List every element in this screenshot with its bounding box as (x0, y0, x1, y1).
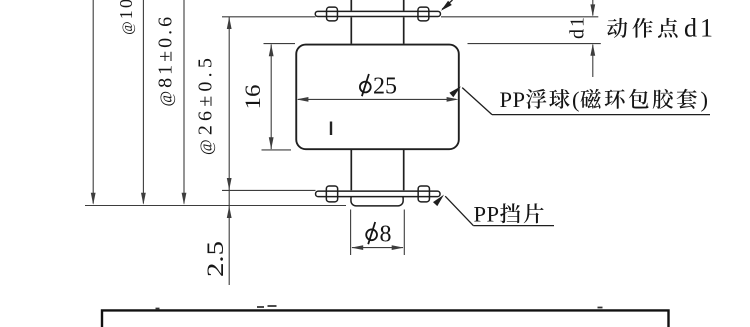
text fragments above table frame (156, 306, 603, 309)
float body PP ball (296, 45, 459, 150)
svg-text:PP: PP (500, 87, 526, 112)
svg-text:@26±0.5: @26±0.5 (195, 54, 217, 155)
bottom retaining clip left (326, 186, 337, 202)
svg-text:d1: d1 (567, 15, 589, 39)
top leader arrow to stop washer (cut at top) (441, 0, 453, 11)
stem end cap (351, 194, 403, 206)
dimension line @26±0.5 / 2.5 (227, 17, 232, 285)
top retaining clip right (418, 7, 429, 21)
stem tube right outline (403, 0, 405, 190)
bottom retaining clip right (418, 186, 429, 202)
svg-text:(: ( (572, 87, 580, 112)
dimension line @81±0.6 right (182, 0, 187, 205)
svg-text:d1: d1 (684, 14, 716, 43)
svg-text:25: 25 (373, 74, 397, 100)
dimension line @81±0.6 left (141, 0, 146, 205)
svg-text:): ) (701, 87, 709, 112)
mark inside float body (330, 122, 332, 136)
top stop washer bar (315, 11, 440, 16)
svg-text:@10: @10 (116, 0, 136, 35)
dimension label φ8 (366, 222, 391, 248)
dimension label d1 rotated (567, 15, 589, 39)
dimension line for @10 (leftmost) (91, 0, 96, 205)
dimension label @26±0.5 (195, 54, 217, 155)
extension line top left (bar bottom edge) (222, 16, 316, 18)
extension line 16 bottom (262, 149, 292, 151)
dimension label φ25 (360, 74, 397, 100)
svg-text:2.5: 2.5 (203, 241, 228, 277)
label 动作点d1 (607, 14, 716, 43)
dimension label 16 (240, 85, 265, 110)
svg-text:8: 8 (380, 222, 392, 248)
table frame (cut at bottom) (102, 310, 669, 327)
extension line φ8 right (403, 210, 405, 256)
dimension line d1 lower (590, 44, 595, 77)
svg-text:16: 16 (240, 85, 265, 110)
extension line right (body top edge) (468, 43, 601, 45)
stem tube left outline (350, 0, 352, 190)
extension line at bottom bar top edge (222, 189, 316, 191)
dimension label @81±0.6 (155, 14, 177, 107)
baseline datum line (85, 205, 346, 207)
dimension line φ25 (296, 97, 458, 102)
dimension label @10 (cut at top) (116, 0, 136, 35)
bottom stop washer bar (316, 191, 441, 197)
dimension line d1 upper (590, 0, 595, 16)
dimension line 16 (269, 44, 274, 149)
svg-text:@81±0.6: @81±0.6 (155, 14, 177, 107)
svg-text:PP: PP (474, 202, 500, 227)
extension line φ8 left (350, 210, 352, 256)
label PP挡片 (474, 202, 544, 227)
top retaining clip left (327, 7, 338, 21)
leader line PP浮球 (449, 86, 710, 114)
dimension line φ8 (351, 245, 404, 250)
leader line PP挡片 (433, 195, 554, 226)
extension line 16 top (264, 43, 296, 45)
label PP浮球(磁环包胶套) (500, 87, 709, 112)
extension line top right (bar bottom edge) (441, 16, 598, 18)
dimension label 2.5 (203, 241, 228, 277)
